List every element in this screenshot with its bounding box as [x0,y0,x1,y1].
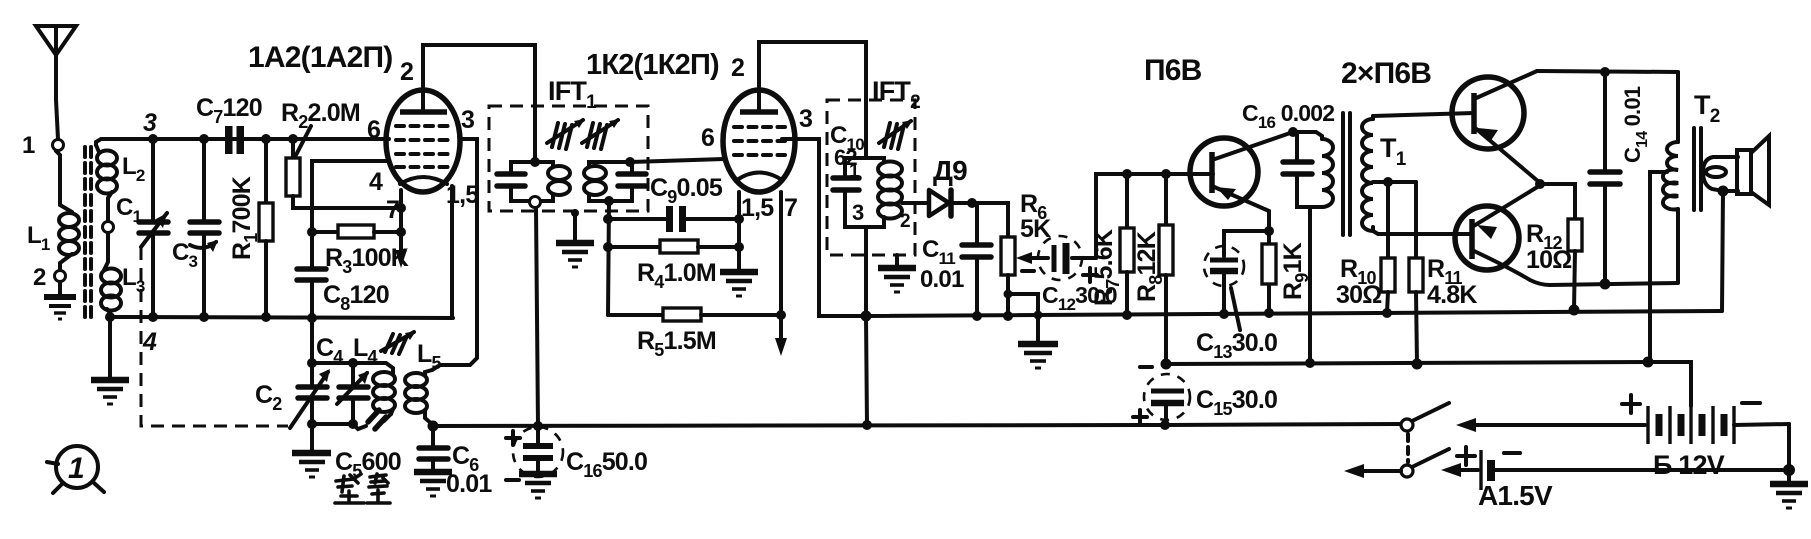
IFT1 primary bottom terminal [530,197,541,208]
R11 bottom junction on rail2 [1412,359,1423,370]
junction L3 bottom [105,312,115,322]
T1 core [1343,113,1350,235]
svg-text:3: 3 [852,200,864,225]
ground below C2 [292,453,331,477]
tube 1K2 [723,90,795,192]
gang dashed link C1-C2 [141,247,288,426]
capacitor C6 [419,426,448,470]
Q1 collector junction [1288,127,1298,137]
potentiometer R6 [977,203,1048,316]
svg-text:2: 2 [400,58,413,86]
figure marker circled 1 [47,446,104,493]
resistor R10 [1381,182,1395,313]
svg-text:3: 3 [461,106,474,134]
wire terminal 2 to ground [58,282,62,296]
speaker bottom junction [1718,186,1729,197]
variable capacitor C4 [337,363,369,424]
T2 primary center tap to rail2 [1650,172,1667,362]
capacitor C9 [608,206,739,232]
terminal 1 [53,140,64,151]
resistor R12 [1540,184,1582,310]
1K2 pin 7 junction [776,310,786,320]
junction C4 top [348,358,358,368]
long supply rail (bottom) [433,424,1401,426]
wire junction down to supply rail [866,316,867,425]
wire R6 bottom to ground [1008,294,1038,342]
diode output junction [967,198,977,208]
filament arrow below R5 [775,315,787,356]
inductor L4 [360,363,395,414]
terminal 2 [55,271,66,282]
IFT2 core adjust arrow [879,120,913,149]
wire tap to L3 [104,233,108,270]
variable capacitor C2 [290,363,330,428]
IFT1 secondary top junction [625,157,635,167]
variable capacitor C3 [190,139,219,317]
IFT2 coil [866,158,902,227]
transistor Q2 (upper P6V) [1452,71,1539,182]
battery A 1.5V [1441,450,1789,490]
svg-text:1: 1 [22,132,35,159]
svg-text:3: 3 [143,109,157,137]
IFT1 shield box (dashed) [489,106,648,211]
svg-text:4: 4 [369,168,383,196]
IFT2 bottom wire down [864,227,868,316]
AVC bus rail [866,311,1722,316]
capacitor C8 [297,232,326,318]
C15 plus sign [1133,410,1147,424]
C14 top junction [1600,67,1610,77]
1K2 pin 1,5 junction top [734,214,744,224]
svg-text:1: 1 [68,452,84,485]
C11 bottom junction [972,311,982,321]
ground below C16 50.0 [519,474,557,498]
C1 junction top [148,134,158,144]
transformer T2 secondary [1703,157,1738,191]
filament feed wire with arrow [1344,464,1401,478]
wire 1K2 pin 7 down [779,192,783,315]
C5 chinese annotation [335,474,390,503]
core adjust arrow between L4 and L5 [381,331,416,354]
C12 plus sign [1083,268,1097,282]
svg-text:5K: 5K [1020,215,1051,243]
filament arrow below R3 [395,240,407,268]
core (dashed) between L1 and L2/L3 [85,147,91,322]
resistor R7 [1120,174,1134,315]
variable capacitor C1 [139,139,168,317]
IFT2 shield ground [878,255,916,292]
resistor R11 [1409,182,1423,364]
svg-text:0.01: 0.01 [446,470,492,498]
battery A minus sign [1504,451,1520,455]
rail2 end junction [1643,357,1654,368]
resistor R2 [286,139,401,208]
switch pole lower [1401,449,1449,477]
Q1 base junction R7 [1122,169,1132,179]
inductor L1 [59,213,79,270]
wire 1A2 pin 4 to R3 [312,161,388,232]
1K2 pin 3 wire [782,139,866,316]
C15 junction rail2 [1161,359,1172,370]
wire C2 bottom to ground [310,424,314,452]
R9 bottom junction [1264,308,1274,318]
collector top wire [1537,71,1678,72]
R6 bottom rail junction [1003,311,1013,321]
resistor R8 [1159,174,1173,364]
wire antenna to terminal 1 [56,55,58,139]
svg-text:4.8K: 4.8K [1427,281,1477,309]
C4 bottom junction [348,419,358,429]
junction osc top left [307,358,317,368]
inductor L2 [96,145,117,221]
resistor R4 [608,240,739,253]
wire IFT1 primary bottom to supply rail [536,208,538,426]
antenna W1 [36,26,76,55]
IFT1 secondary coil [584,162,630,201]
IFT1 primary tank capacitor [497,162,535,201]
IFT1 secondary bottom junction [604,196,614,206]
ground at battery [1770,470,1808,508]
electrolytic C16 50.0 [513,426,563,477]
svg-text:2: 2 [33,264,46,291]
capacitor C16 0.002 [1283,132,1312,207]
osc bottom wire [312,422,353,426]
battery A plus sign [1457,447,1475,465]
capacitor C11 [962,203,991,316]
1A2 pin 3 wire to L5 [432,139,477,370]
svg-text:Б 12V: Б 12V [1653,450,1725,480]
transistor Q1 (P6V) [1190,132,1293,211]
ground below 1K2 pin 1,5 [720,272,758,296]
svg-text:30Ω: 30Ω [1336,281,1382,309]
oscillator top wire [312,361,360,365]
electrolytic C13 [1204,231,1269,314]
speaker [1737,136,1769,205]
IFT1 secondary tank capacitor [609,162,646,201]
resistor R9 [1262,244,1276,284]
battery B minus sign [1742,401,1760,405]
wire L3 bottom to ground [108,317,112,378]
svg-text:7: 7 [784,194,797,222]
svg-text:10Ω: 10Ω [1526,246,1572,274]
R2 label with leader [281,99,360,155]
ground below L1 [44,297,76,319]
junction ground stem on AVC rail [1034,311,1043,320]
svg-text:2: 2 [731,54,744,82]
switch gang link (dashed) [1406,434,1410,462]
Q1 base junction R8 [1161,169,1171,179]
T1 primary bottom junction on rail2 [1305,358,1315,368]
IFT1 shield ground [556,209,594,267]
C2 bottom junction [307,419,317,429]
collector feed rail2 [1166,362,1648,364]
wire rail to oscillator node [310,318,314,363]
tube 1A2 [386,90,460,192]
padder capacitor C5 [353,410,391,429]
svg-text:7: 7 [386,196,399,224]
wire terminal 1 to L1 [56,151,72,212]
svg-text:П6В: П6В [1144,54,1202,87]
svg-text:A1.5V: A1.5V [1478,480,1553,511]
C3 junction top [199,134,209,144]
battery B center tap from rail2 [1648,362,1691,406]
junction R4 tap [603,242,613,252]
R3 right junction [396,227,406,237]
C12 minus sign [1022,269,1034,273]
wire speaker return to AVC bus [1722,191,1723,311]
svg-text:2: 2 [900,211,910,232]
T1 secondary top wire to Q2 base [1373,113,1474,116]
R3 left junction [307,227,317,237]
T1 center tap [1373,177,1416,187]
IFT1 core adjust arrows [547,119,620,149]
electrolytic C15 [1144,374,1190,425]
switch pole upper [1401,403,1449,431]
wire pin7 down [399,190,403,240]
AVC bus junction [861,311,872,322]
svg-text:1: 1 [849,161,860,182]
junction on supply rail [862,420,872,430]
terminal tap between L2 and L3 [103,222,114,233]
wire T1 primary bottom to rail2 [1308,207,1312,363]
R1 junction bottom [261,312,271,322]
capacitor C7 (series, top rail) [225,126,244,154]
ground below L3 [91,380,129,404]
C14 bottom junction [1600,279,1611,290]
T2 core [1694,128,1701,210]
R2 junction top [288,134,298,144]
R12 bottom junction [1569,305,1580,316]
battery B 12V [1456,406,1789,444]
IFT2 tank capacitor C10 [833,158,866,227]
emitters junction [1535,179,1545,189]
Q1 emitter junction [1264,226,1274,236]
C8 bottom junction [307,313,317,323]
1A2 pin 2 lead and top wire [423,45,535,162]
node 3 top rail [96,139,389,145]
C16(50) plus sign [506,431,520,445]
C3 junction bottom [199,312,209,322]
IFT2 shield box (dashed) [827,100,915,255]
wire IFT1 secondary bottom down [608,201,609,315]
resistor R3 [312,225,401,238]
resistor R5 [608,308,781,321]
svg-text:6: 6 [701,124,714,152]
T1 secondary bottom wire to Q3 base [1373,231,1472,234]
junction battery minus / ground [1783,464,1795,476]
transformer T1 primary [1293,132,1333,207]
1K2 pin 2 lead and top wire [759,42,866,158]
battery B plus sign [1622,395,1640,413]
wire emitter down [1267,211,1271,313]
R6 bottom junction [1004,290,1013,299]
junction L5 bottom on supply rail [428,421,439,432]
diode D9 [902,190,972,216]
svg-text:4: 4 [142,328,157,356]
R7 bottom junction [1122,310,1132,320]
R10 bottom junction [1382,308,1392,318]
svg-text:0.01: 0.01 [920,266,964,293]
resistor R1 [259,139,273,317]
R1 junction top [261,134,271,144]
lower collector wire [1550,283,1678,285]
svg-text:1,5: 1,5 [741,194,774,222]
wire battery B minus down [1787,424,1791,470]
capacitor C14 [1590,72,1620,284]
wire IFT1 secondary top to 1K2 pin 6 [630,159,724,162]
svg-text:1А2(1А2П): 1А2(1А2П) [248,41,392,74]
1A2 pin 1,5 wire down to rail [450,186,454,318]
C15 junction supply rail [1160,420,1170,430]
IFT1 primary coil [535,162,570,201]
C13 bottom junction [1219,309,1229,319]
wire C12 to transistor base [1096,174,1213,258]
1A2 pin 7 junction [396,203,406,213]
inductor L5 [405,370,433,425]
svg-text:6: 6 [367,116,380,144]
IFT1 primary top junction [530,157,540,167]
C13 label with leader [1196,288,1277,362]
wire 1K2 pin 1,5 down [737,192,741,270]
svg-text:3: 3 [799,105,812,133]
junction C9 tap [603,214,613,224]
C15 minus sign [1140,365,1152,369]
svg-text:Д9: Д9 [933,155,967,186]
C16(50) minus sign [506,478,519,482]
inductor L3 [101,269,121,318]
RF bottom rail (node 4) [110,317,453,318]
svg-text:2×П6В: 2×П6В [1341,57,1431,90]
ground at volume control [1018,344,1058,368]
electrolytic C12 [1038,236,1096,280]
C1 junction bottom [148,312,158,322]
ground below C6 [414,472,452,496]
transformer T2 primary [1663,72,1678,282]
1K2 pin 1,5 junction lower [734,242,744,252]
svg-text:1К2(1К2П): 1К2(1К2П) [586,49,719,81]
C16(50) junction on rail [533,421,543,431]
transformer T1 secondary [1362,116,1373,231]
transistor Q3 (lower P6V) [1455,186,1550,285]
